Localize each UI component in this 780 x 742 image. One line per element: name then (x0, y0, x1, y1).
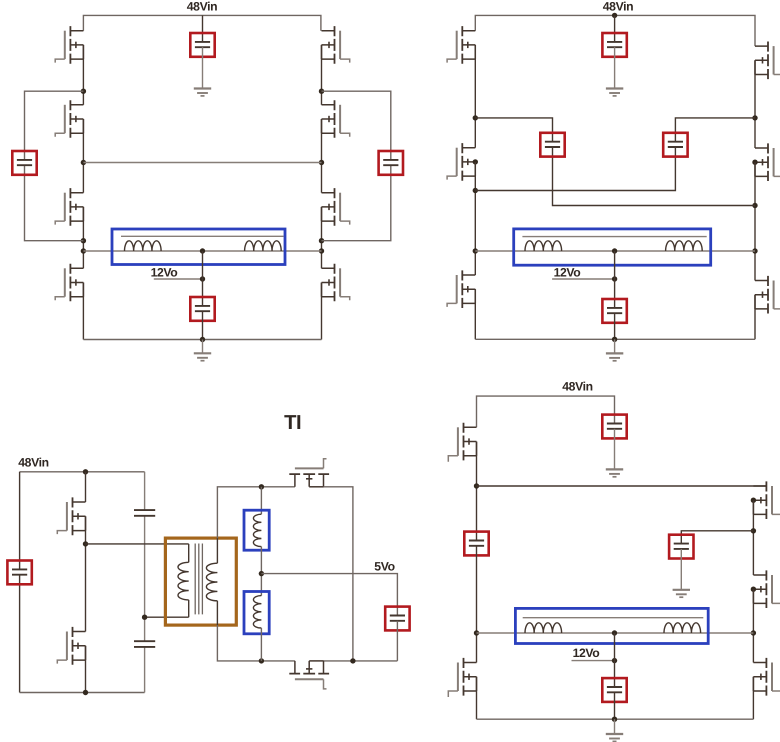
wire left rail seg3 Q1 (82, 207, 84, 268)
wire bottom rail Q4 (477, 718, 754, 720)
node dot Q2 left y251 (473, 248, 478, 253)
wire primary stub top (188, 544, 190, 562)
wire inductor line Q1 (83, 250, 321, 252)
wire bottom rail Q1 (83, 339, 321, 341)
capacitor C9 input (Q3 left) (7, 561, 31, 585)
inductor pair box (Q2 coupled inductor) (514, 229, 711, 265)
transistor Q3-S1 (top sync FET) (289, 459, 329, 487)
ground (Q2 input cap) (606, 89, 623, 96)
node dot Q2 12Vo (612, 276, 617, 281)
svg-text:12Vo: 12Vo (151, 265, 178, 279)
node A dot (Q1 left y91) (81, 89, 86, 94)
wire primary stub bottom (188, 600, 190, 617)
wire Q4 right rail seg1 (752, 500, 754, 575)
wire primary top lead Q3 (86, 543, 189, 545)
svg-text:5Vo: 5Vo (374, 559, 394, 573)
transistor Q2-R2 (752, 143, 780, 181)
wire middle cap to ground Q4 (680, 549, 682, 590)
wire core bar Q1 (121, 235, 284, 237)
node dot Q3 sec bottom left (259, 658, 264, 663)
wire mid rail Q1 (83, 162, 321, 164)
node dot Q1 right y251 (319, 248, 324, 253)
wire output drop Q2 (614, 251, 616, 308)
wire output cap to rail Q4 (614, 692, 616, 719)
wire inductor leg mid Q3 (260, 547, 262, 596)
capacitor C5 input (Q2 top center) (602, 33, 626, 57)
wire right rail seg2 Q1 (321, 119, 323, 193)
wire bottom rail Q3 primary (20, 692, 145, 694)
transistor Q3-M1 (57, 497, 85, 535)
wire Q3 leg mid (85, 516, 87, 631)
wire top rail Q1 (83, 15, 321, 30)
transistor Q4-L2 (448, 658, 476, 697)
wire Q2 right rail seg2 (754, 162, 756, 280)
transistor Q1-L1 (55, 26, 83, 64)
inductor L1a (Q1 left winding) (125, 241, 162, 251)
ground (Q4 middle cap) (673, 590, 690, 597)
svg-text:48Vin: 48Vin (18, 456, 49, 470)
wire right rail seg3 Q1 (321, 207, 323, 268)
inductor L4b (Q4 right winding) (664, 623, 701, 633)
capacitor C3 flying right (Q1) (379, 151, 403, 175)
transistor Q3-S2 (bottom sync FET) (289, 661, 329, 689)
wire ground drop Q4 (614, 719, 616, 734)
capacitor C10 divider top (Q3) (134, 510, 155, 516)
wire output drop Q4 (614, 633, 616, 687)
capacitor C6 flying left (Q2) (540, 133, 564, 157)
transformer primary winding (178, 562, 189, 600)
transistor Q1-R4 (322, 264, 350, 302)
capacitor C1 input (Q1 top center) (190, 33, 214, 57)
node dot Q2 center tap (612, 248, 617, 253)
svg-text:48Vin: 48Vin (603, 0, 634, 13)
capacitor C11 divider bottom (Q3) (134, 641, 155, 647)
node dot Q1 left mid-rail (81, 160, 86, 165)
svg-text:12Vo: 12Vo (573, 646, 600, 660)
wire primary bottom lead Q3 (145, 616, 189, 618)
wire left rail seg4 Q1 (82, 283, 84, 340)
capacitor C2 flying left (Q1) (12, 151, 36, 175)
transistor Q4-R3 (753, 658, 780, 696)
wire top rail Q3 (20, 471, 145, 473)
node dot Q3 cap-leg tap (142, 615, 147, 620)
node dot Q2 right y205 (752, 203, 757, 208)
transistor Q1-R1 (322, 26, 350, 64)
transistor Q2-L2 (447, 143, 478, 181)
wire Q4 left leg seg1 (476, 442, 478, 541)
node dot Q1 right y240 (319, 238, 324, 243)
transistor Q2-R3 (755, 276, 780, 314)
wire cap to ground Q1 (202, 47, 204, 88)
wire secondary top rail right Q3 (324, 487, 353, 661)
wire input cap drop Q1 (202, 15, 204, 42)
wire output drop Q1 (202, 251, 204, 306)
node dot Q1 bottom center (200, 337, 205, 342)
wire secondary top rail Q3 (217, 487, 295, 538)
inductor pair box (Q1 coupled inductor) (112, 229, 285, 265)
transistor Q2-R1 (755, 42, 780, 80)
node dot Q3 sec bottom right (350, 658, 355, 663)
capacitor C12 output (Q3) (385, 607, 409, 631)
node dot Q4 right y531 (751, 528, 756, 533)
transistor Q1-R3 (322, 188, 350, 226)
inductor box L3b (Q3 bottom) (244, 592, 269, 634)
transistor Q1-R2 (322, 100, 350, 138)
wire output cap to rail Q2 (614, 313, 616, 339)
wire core bar Q2 (522, 236, 706, 238)
wire flying cap L path Q2 (475, 118, 755, 206)
wire inductor line Q2 (475, 250, 755, 252)
node dot Q1 12Vo (200, 276, 205, 281)
inductor box L3a (Q3 top) (244, 510, 269, 550)
wire 12Vo stub Q1 (154, 278, 203, 280)
wire secondary stub bottom (216, 601, 218, 625)
transformer core lines (195, 544, 202, 615)
wire Q4 left leg seg2 (476, 546, 478, 663)
wire Q2 left rail seg1 (474, 45, 476, 148)
wire Q2 right rail seg3 (754, 295, 756, 340)
svg-text:TI: TI (284, 412, 301, 434)
node dot Q1 right mid-rail (319, 160, 324, 165)
node dot Q2 top center (612, 13, 617, 18)
wire Q2 right rail seg1 (754, 60, 756, 148)
wire right rail seg1 Q1 (321, 45, 323, 105)
inductor L2a (Q2 left winding) (525, 241, 562, 251)
node dot Q1 right y91 (319, 89, 324, 94)
wire left rail Q3 (19, 472, 21, 693)
node dot Q4 12Vo (612, 658, 617, 663)
wire cap leg Q3 (144, 472, 146, 693)
ground (Q1 output) (194, 353, 211, 360)
wire 12Vo stub Q4 (572, 660, 615, 662)
wire flying-cap loop right Q1 (322, 91, 391, 241)
wire flying cap R path Q2 (475, 118, 755, 191)
wire cap to ground Q4 (614, 429, 616, 470)
wire middle cap link Q4 (681, 531, 753, 544)
inductor L2b (Q2 right winding) (666, 241, 703, 251)
node dot Q2 right y251 (752, 248, 757, 253)
wire 5Vo line Q3 (261, 574, 397, 616)
node dot Q3 leg mid (83, 541, 88, 546)
node dot Q4 right y633 (751, 630, 756, 635)
capacitor C4 output (Q1) (190, 297, 214, 321)
node dot Q2 left y190 (473, 188, 478, 193)
wire input cap drop Q2 (614, 15, 616, 42)
ground (Q4 output) (606, 734, 623, 741)
inductor L4a (Q4 left winding) (525, 623, 562, 633)
capacitor C7 flying right (Q2) (663, 133, 687, 157)
wire output cap to rail Q3 (396, 621, 398, 661)
wire top rail Q4 (477, 396, 615, 427)
transformer secondary winding (206, 563, 217, 601)
wire inductor leg bottom Q3 (260, 628, 262, 661)
transformer T1 box (165, 538, 236, 625)
wire core bar Q4 (523, 617, 704, 619)
wire ground drop Q2 (614, 339, 616, 353)
wire 12Vo stub Q2 (552, 278, 615, 280)
transistor Q3-M2 (57, 627, 85, 665)
transistor Q1-L3 (55, 188, 83, 226)
ground (Q4 input cap) (606, 469, 623, 476)
node dot Q3 bottom leg (83, 690, 88, 695)
node dot Q1 center tap (200, 248, 205, 253)
ground (Q2 output) (606, 353, 623, 360)
node dot Q1 left y251 (81, 248, 86, 253)
capacitor C15 middle (Q4) (669, 535, 693, 559)
wire bottom rail Q2 (475, 338, 755, 340)
wire Q4 right rail seg2 (752, 589, 754, 662)
transistor Q4-R2 (751, 570, 780, 608)
capacitor C13 input (Q4) (602, 415, 626, 439)
wire Q2 left rail seg2 (474, 162, 476, 275)
node dot Q3 top rail (83, 469, 88, 474)
transistor Q2-L3 (447, 270, 475, 308)
inductor L3a winding (253, 514, 261, 546)
node dot Q1 left y240 (81, 238, 86, 243)
wire ground drop Q1 (202, 340, 204, 354)
svg-text:12Vo: 12Vo (554, 265, 581, 279)
node dot Q4 left y486 (474, 483, 479, 488)
node dot Q3 sec top (259, 484, 264, 489)
svg-text:48Vin: 48Vin (187, 0, 218, 13)
transistor Q1-L4 (55, 264, 83, 302)
wire left rail seg2 Q1 (82, 119, 84, 193)
wire Q3 leg top (85, 472, 87, 502)
transistor Q4-R1 (751, 481, 780, 519)
node dot Q2 right y118 (752, 115, 757, 120)
capacitor C14 left flying (Q4) (464, 532, 488, 556)
transistor Q4-L1 (448, 423, 476, 462)
wire secondary bottom rail Q3 (217, 625, 397, 661)
capacitor C8 output (Q2) (602, 299, 626, 323)
transistor Q1-L2 (55, 100, 83, 138)
wire Q4 right rail seg3 (752, 677, 754, 719)
ground (Q1 input cap) (194, 89, 211, 96)
wire Q2 left rail seg3 (474, 289, 476, 339)
node dot Q3 5Vo node (259, 571, 264, 576)
wire left rail seg1 Q1 (82, 45, 84, 105)
wire top rail Q2 (475, 15, 755, 46)
wire output cap to rail Q1 (202, 311, 204, 339)
wire Q4 left leg seg3 (476, 677, 478, 719)
node dot Q4 left y633 (474, 630, 479, 635)
wire flying-cap loop left Q1 (25, 91, 84, 241)
wire output inductor leg top Q3 (260, 487, 262, 514)
wire secondary stub top (216, 538, 218, 563)
node dot Q4 center tap (612, 630, 617, 635)
wire cap to ground Q2 (614, 47, 616, 88)
wire inductor line Q4 (477, 632, 754, 634)
node dot Q4 bottom center (612, 717, 617, 722)
inductor L3b winding (253, 596, 261, 628)
capacitor C16 output (Q4) (602, 678, 626, 702)
wire right rail seg4 Q1 (321, 283, 323, 340)
svg-text:48Vin: 48Vin (562, 380, 593, 394)
transistor Q2-L1 (447, 26, 475, 64)
node dot Q2 bottom center (612, 337, 617, 342)
inductor pair box (Q4 coupled inductor) (515, 608, 708, 643)
node dot Q2 left y118 (473, 115, 478, 120)
inductor L1b (Q1 right winding) (245, 241, 282, 251)
wire Q3 leg bottom (85, 646, 87, 693)
wire rail2 Q4 (477, 485, 767, 487)
